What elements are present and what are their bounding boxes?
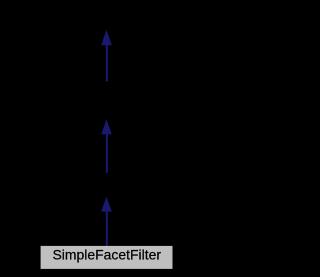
svg-text:SimpleFacetFilter: SimpleFacetFilter xyxy=(53,248,162,263)
inheritance arrow 1 (top) xyxy=(101,30,112,81)
inheritance arrow 2 (middle) xyxy=(101,119,112,172)
inheritance arrow 3 (bottom) xyxy=(101,197,112,247)
class box SimpleFacetFilter xyxy=(41,246,173,269)
label SimpleFacetFilter xyxy=(53,248,162,263)
